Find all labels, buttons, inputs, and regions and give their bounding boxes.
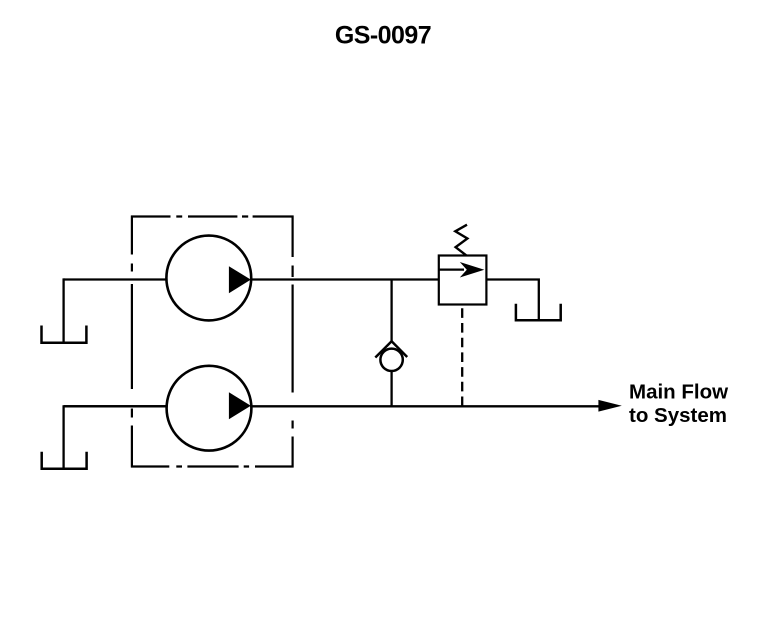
svg-text:to System: to System [629,404,727,427]
svg-text:Main Flow: Main Flow [629,381,728,404]
svg-text:GS-0097: GS-0097 [335,22,431,50]
